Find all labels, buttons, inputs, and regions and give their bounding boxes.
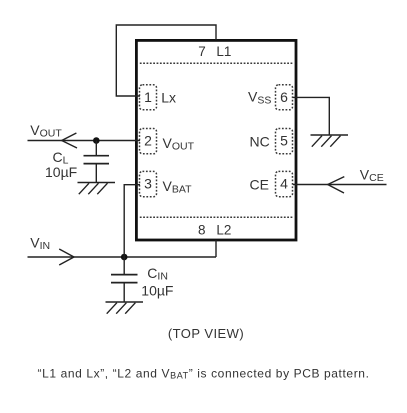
wire junction to CL top plate xyxy=(95,141,97,156)
wire VSS to ground xyxy=(293,97,329,135)
pin 5 box xyxy=(276,129,293,154)
wire VOUT from pin2 to left xyxy=(28,140,141,142)
wire pin3 VBAT down to VIN line xyxy=(124,185,140,257)
svg-text:Lx: Lx xyxy=(161,89,176,105)
wire CIN bottom plate to ground xyxy=(123,283,125,302)
svg-text:VCE: VCE xyxy=(360,167,384,185)
svg-text:7: 7 xyxy=(198,44,206,59)
wire CE to right xyxy=(293,184,387,186)
svg-text:1: 1 xyxy=(144,89,152,105)
svg-text:5: 5 xyxy=(280,133,288,149)
ground (CIN) xyxy=(106,302,144,314)
capacitor CIN xyxy=(111,274,138,276)
svg-text:6: 6 xyxy=(280,89,288,105)
svg-text:CE: CE xyxy=(250,176,269,192)
pin 6 box xyxy=(276,85,293,110)
wire VIN horizontal xyxy=(28,256,217,258)
pin 2 box xyxy=(140,129,157,154)
svg-text:4: 4 xyxy=(280,176,288,192)
pin 1 box xyxy=(140,85,157,110)
svg-text:10µF: 10µF xyxy=(45,164,77,180)
ground (VSS) xyxy=(311,135,349,147)
svg-text:3: 3 xyxy=(144,176,152,192)
svg-text:(TOP VIEW): (TOP VIEW) xyxy=(168,326,244,341)
svg-text:“L1 and Lx”, “L2 and VBAT” is: “L1 and Lx”, “L2 and VBAT” is connected … xyxy=(38,367,370,381)
wire CL bottom plate to ground xyxy=(95,164,97,183)
svg-text:L2: L2 xyxy=(216,222,231,237)
svg-text:2: 2 xyxy=(144,133,152,149)
wire junction to CIN top plate xyxy=(123,257,125,275)
svg-text:CIN: CIN xyxy=(147,265,168,283)
node junction VIN/CIN/VBAT xyxy=(121,254,128,261)
node junction VOUT/CL xyxy=(93,137,100,144)
svg-text:VIN: VIN xyxy=(30,235,50,253)
svg-text:8: 8 xyxy=(198,222,206,237)
inner dotted line bottom (pin 8 / L2 pad) xyxy=(140,216,293,218)
arrowhead VIN (pointing right) xyxy=(59,249,74,265)
svg-text:10µF: 10µF xyxy=(141,282,173,298)
pin 3 box xyxy=(140,171,157,196)
pin 4 box xyxy=(276,171,293,196)
arrowhead VOUT (pointing left) xyxy=(62,133,77,148)
svg-text:NC: NC xyxy=(250,133,270,149)
inner dotted line top (pin 7 / L1 pad) xyxy=(140,62,293,64)
ground (CL) xyxy=(78,183,116,195)
capacitor CL xyxy=(84,155,110,157)
wire Lx loop from pin1 to L1 top xyxy=(116,25,216,96)
wire up to L2 pad xyxy=(215,240,217,257)
svg-text:VOUT: VOUT xyxy=(30,122,62,140)
svg-text:L1: L1 xyxy=(216,44,231,59)
IC body U1 (top view) xyxy=(136,40,296,240)
arrowhead CE (pointing left) xyxy=(328,177,345,193)
